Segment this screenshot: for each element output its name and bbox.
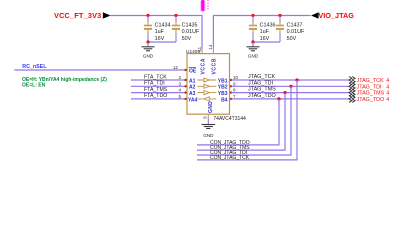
buffer 1 (198, 78, 217, 82)
wire VIO_JTAG rail (213, 16, 310, 50)
wire JTAG_TDI (232, 85, 350, 87)
svg-text:JTAG_TDO: JTAG_TDO (357, 97, 385, 103)
svg-text:YB3: YB3 (218, 91, 228, 97)
capacitor C1434 (144, 16, 171, 43)
svg-text:0.01UF: 0.01UF (182, 29, 200, 35)
wire CON_JTAG_TCK (197, 80, 297, 160)
svg-text:VIO_JTAG: VIO_JTAG (318, 11, 354, 20)
pin 2 A1 (178, 75, 195, 84)
off-sheet connector JTAG_TDI (349, 83, 389, 91)
svg-text:1uF: 1uF (260, 29, 270, 35)
power port VCC_FT_3V3 (54, 11, 111, 20)
svg-text:1uF: 1uF (155, 29, 165, 35)
svg-text:3: 3 (178, 81, 181, 86)
svg-text:4: 4 (386, 84, 389, 90)
wire JTAG_TDO (232, 98, 350, 100)
capacitor C1437 (276, 16, 305, 43)
note OE truth text (22, 77, 107, 88)
wire cap bottoms right bank (253, 41, 280, 43)
svg-text:C1437: C1437 (287, 23, 303, 29)
wire JTAG_TCK (232, 79, 350, 81)
pin 5 YA4 (178, 94, 197, 103)
svg-text:OE: OE (189, 68, 197, 74)
svg-text:YB1: YB1 (218, 78, 228, 84)
svg-text:FTA_TCK: FTA_TCK (144, 74, 167, 80)
pin 11 VCCA (197, 46, 207, 74)
junction at C1437 top (278, 14, 281, 17)
pin 4 A3 (178, 88, 195, 97)
svg-text:74AVC4T3144: 74AVC4T3144 (213, 116, 246, 122)
svg-text:JTAG_TMS: JTAG_TMS (248, 87, 276, 93)
svg-text:YA4: YA4 (188, 97, 197, 103)
off-sheet connector JTAG_TDO (349, 95, 389, 103)
svg-text:VCCB: VCCB (212, 58, 218, 75)
svg-text:4: 4 (386, 97, 389, 103)
junction TDI column (289, 85, 292, 88)
svg-text:11: 11 (197, 46, 202, 51)
pin 12 OE (173, 65, 197, 74)
svg-text:4: 4 (386, 78, 389, 84)
svg-text:OE=L: EN: OE=L: EN (22, 83, 46, 89)
junction at left GND (146, 40, 149, 43)
svg-text:JTAG_TDI: JTAG_TDI (357, 84, 382, 90)
svg-text:GND: GND (203, 133, 214, 138)
svg-text:VCC_FT_3V3: VCC_FT_3V3 (54, 11, 101, 20)
svg-text:16V: 16V (155, 36, 165, 42)
svg-text:C1435: C1435 (182, 23, 198, 29)
svg-text:10: 10 (233, 75, 239, 80)
svg-text:C1434: C1434 (155, 23, 171, 29)
svg-text:JTAG_TCK: JTAG_TCK (357, 78, 385, 84)
svg-text:9: 9 (233, 81, 236, 86)
svg-text:B4: B4 (221, 97, 228, 103)
svg-text:2: 2 (178, 75, 181, 80)
compile mask marker (200, 0, 208, 12)
svg-text:GND: GND (208, 101, 214, 113)
wire JTAG_TMS (232, 92, 350, 94)
svg-text:VCCA: VCCA (200, 58, 206, 75)
wire FTA_TDI (131, 85, 187, 87)
ground right bank (247, 42, 260, 59)
pin 8 YB3 (218, 88, 236, 97)
pin 14 VCCB (208, 44, 218, 74)
svg-text:A3: A3 (189, 91, 196, 97)
junction TDO column (277, 97, 280, 100)
svg-text:0.01UF: 0.01UF (287, 29, 305, 35)
svg-text:FTA_TMS: FTA_TMS (144, 87, 168, 93)
svg-text:RC_nSEL: RC_nSEL (22, 64, 47, 70)
wire CON_JTAG_TDO (197, 99, 279, 145)
junction TMS column (283, 91, 286, 94)
svg-text:12: 12 (173, 65, 179, 70)
power port VIO_JTAG (311, 11, 354, 20)
pin 10 YB1 (218, 75, 239, 84)
svg-text:4: 4 (178, 88, 181, 93)
svg-text:JTAG_TCK: JTAG_TCK (248, 74, 276, 80)
svg-text:CON_JTAG_TCK: CON_JTAG_TCK (210, 155, 250, 161)
ground left bank (142, 42, 155, 59)
junction at C1436 top (251, 14, 254, 17)
junction at right GND (251, 40, 254, 43)
svg-text:50V: 50V (182, 36, 192, 42)
buffer 2 (198, 84, 217, 88)
svg-text:5: 5 (178, 94, 181, 99)
svg-text:YB2: YB2 (218, 85, 228, 91)
buffer 3 (198, 91, 217, 95)
off-sheet connector JTAG_TMS (349, 89, 389, 97)
junction at C1434 top (146, 14, 149, 17)
junction at C1435 top (174, 14, 177, 17)
ground under U1408 (202, 114, 216, 138)
pin GND of U1408 (208, 101, 214, 113)
svg-text:JTAG_TMS: JTAG_TMS (357, 91, 385, 97)
pin 9 YB2 (218, 81, 236, 90)
svg-text:8: 8 (233, 88, 236, 93)
svg-text:14: 14 (208, 44, 213, 49)
off-sheet connector JTAG_TCK (349, 77, 389, 85)
capacitor C1436 (249, 16, 276, 43)
junction TCK column (295, 78, 298, 81)
svg-text:JTAG_TDO: JTAG_TDO (248, 93, 276, 99)
pin 7 B4 (221, 94, 236, 103)
svg-text:7: 7 (233, 94, 236, 99)
wire CON_JTAG_TMS (197, 93, 285, 151)
wire FTA_TDO (131, 98, 187, 100)
svg-text:GND: GND (248, 54, 259, 59)
wire cap bottoms left bank (148, 41, 176, 43)
svg-text:50V: 50V (287, 36, 297, 42)
wire VCC_FT_3V3 rail (110, 16, 203, 50)
svg-text:4: 4 (386, 91, 389, 97)
svg-text:FTA_TDI: FTA_TDI (144, 81, 165, 87)
svg-text:JTAG_TDI: JTAG_TDI (248, 80, 273, 86)
svg-text:16V: 16V (260, 36, 270, 42)
wire CON_JTAG_TDI (197, 86, 291, 155)
wire RC_nSEL to OE pin 12 (14, 69, 186, 71)
op-amp U1408 body (186, 49, 246, 122)
svg-text:A2: A2 (189, 85, 196, 91)
svg-text:A1: A1 (189, 78, 196, 84)
wire FTA_TMS (131, 92, 187, 94)
buffer 4 reversed (198, 97, 217, 101)
svg-text:FTA_TDO: FTA_TDO (144, 93, 167, 99)
svg-text:GND: GND (143, 54, 154, 59)
pin 3 A2 (178, 81, 195, 90)
svg-text:C1436: C1436 (260, 23, 276, 29)
capacitor C1435 (172, 16, 200, 43)
wire FTA_TCK (131, 79, 187, 81)
